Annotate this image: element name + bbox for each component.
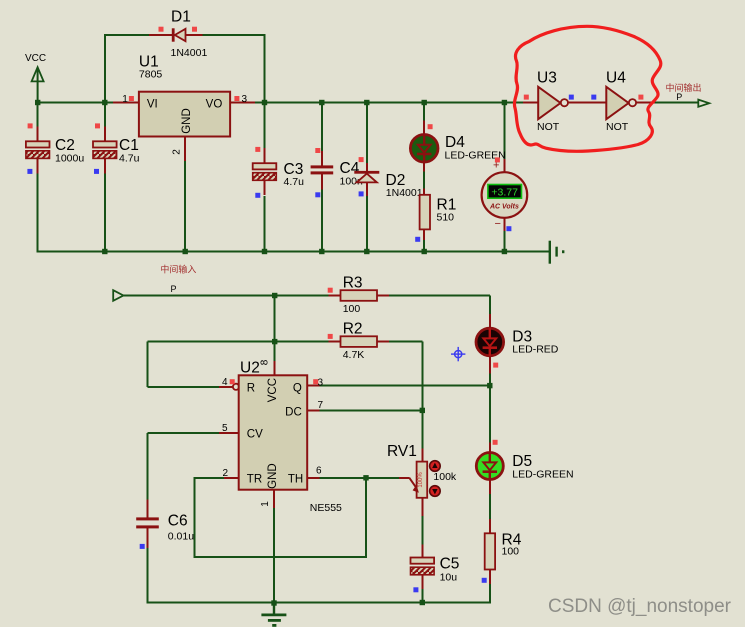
svg-text:7: 7 (318, 400, 324, 411)
svg-text:U2: U2 (240, 360, 260, 377)
wire C4 column bottom (321, 190, 323, 252)
svg-text:Q: Q (293, 383, 302, 395)
ground top right (550, 241, 563, 264)
marker R3 left (328, 288, 333, 293)
marker C6 bottom (140, 544, 145, 549)
capacitor C4 100n (311, 151, 363, 190)
wire U3 input pin (523, 102, 538, 104)
wire C3 column bottom (264, 196, 266, 252)
LED D3 LED-RED (476, 314, 559, 374)
wire D4 column top (423, 103, 425, 122)
LED D5 LED-GREEN (476, 443, 573, 495)
junction P vertical (272, 293, 277, 298)
svg-text:RV1: RV1 (387, 443, 417, 460)
wire U2 pin1 column (273, 508, 275, 603)
wire U1 pin2 column (184, 161, 186, 252)
marker D1 left (159, 27, 164, 32)
marker U4 output (638, 95, 643, 100)
wire P vertical to U2 VCC (274, 296, 276, 362)
marker U3 input (524, 95, 529, 100)
wire C2 column bottom (37, 173, 39, 253)
wire D1 branch top-left horizontal (104, 34, 150, 36)
marker U2 pin3 (313, 379, 318, 384)
svg-text:7805: 7805 (139, 69, 163, 81)
svg-text:6: 6 (316, 466, 322, 477)
marker R4 bottom (482, 578, 487, 583)
svg-text:VI: VI (147, 99, 158, 111)
red annotation loop around U3 U4 (514, 26, 660, 151)
marker U1 pin1 (129, 96, 134, 101)
svg-text:1N4001: 1N4001 (171, 47, 208, 59)
svg-text:1: 1 (122, 94, 128, 105)
marker R1 bottom (415, 237, 420, 242)
svg-text:D1: D1 (171, 9, 191, 26)
wire C1 column top (104, 103, 106, 127)
junction reset net / P vertical (272, 339, 277, 344)
svg-text:D5: D5 (512, 453, 532, 470)
svg-text:C5: C5 (440, 556, 460, 573)
wire U4 output to arrow (655, 102, 699, 104)
svg-text:U3: U3 (537, 70, 557, 87)
wire DC pin horizontal (319, 409, 422, 411)
wire top rail left segment (38, 102, 114, 104)
junction TH / TR loop (363, 475, 368, 480)
regulator U1 7805 (113, 54, 255, 162)
wire D3 to Q junction (489, 373, 491, 386)
wire reset net left vertical (146, 342, 148, 387)
junction VCC stem (35, 100, 40, 105)
wire P line (input to R3/D3) (123, 295, 489, 297)
wire TH horizontal (319, 477, 400, 479)
junction rail C4 (319, 249, 324, 254)
marker U3 output (569, 95, 574, 100)
wire U3 output to U4 input (568, 102, 606, 104)
ground bottom (261, 603, 286, 625)
svg-text:3: 3 (242, 94, 248, 105)
wire D3 feed vertical (489, 296, 491, 315)
svg-text:P: P (676, 92, 682, 102)
wire voltmeter column top (503, 103, 505, 160)
capacitor C1 4.7u (93, 126, 140, 173)
marker U4 input (591, 95, 596, 100)
wire C1 column bottom (104, 173, 106, 252)
svg-text:VCC: VCC (267, 378, 279, 402)
svg-text:NOT: NOT (537, 121, 560, 133)
node P output arrow (698, 100, 709, 107)
junction voltmeter top (502, 100, 507, 105)
svg-text:0.01u: 0.01u (168, 531, 194, 543)
svg-text:2: 2 (172, 149, 183, 155)
capacitor C6 0.01u (136, 500, 194, 549)
svg-text:GND: GND (181, 108, 193, 134)
marker C1 top (95, 123, 100, 128)
wire top rail main segment (265, 102, 525, 104)
svg-text:C1: C1 (119, 137, 139, 154)
svg-text:VO: VO (206, 99, 223, 111)
marker D2 bottom (359, 191, 364, 196)
wire C5 bottom (421, 589, 423, 603)
junction rail R1 (422, 249, 427, 254)
svg-text:GND: GND (267, 463, 279, 489)
marker C5 bottom (413, 587, 418, 592)
wire R pin horizontal (147, 386, 219, 388)
LED D4 LED-GREEN (410, 121, 505, 172)
svg-text:10u: 10u (440, 572, 458, 584)
inverter U4 NOT (606, 70, 636, 134)
marker C1 bottom (94, 169, 99, 174)
junction rail D2 (364, 249, 369, 254)
svg-text:100k: 100k (433, 471, 457, 483)
diode D1 1N4001 (149, 9, 207, 60)
origin crosshair (451, 347, 465, 361)
junction DC node (420, 408, 425, 413)
marker D5 top (493, 440, 498, 445)
marker C2 top (28, 123, 33, 128)
wire voltmeter column bottom (503, 231, 505, 252)
wire CV horizontal (147, 432, 219, 434)
svg-text:4.7u: 4.7u (119, 153, 140, 165)
svg-text:100: 100 (502, 546, 520, 558)
marker R2 left (328, 334, 333, 339)
svg-text:+3.77: +3.77 (491, 187, 518, 199)
svg-text:NE555: NE555 (310, 502, 342, 514)
svg-text:100: 100 (343, 303, 361, 315)
svg-text:4: 4 (222, 377, 228, 388)
marker C3 top (255, 147, 260, 152)
svg-text:R3: R3 (343, 275, 363, 292)
marker C2 bottom (27, 169, 32, 174)
svg-text:DC: DC (285, 407, 302, 419)
junction D2 top (364, 100, 369, 105)
wire bottom rail of top circuit (37, 251, 550, 253)
svg-text:NOT: NOT (606, 121, 629, 133)
svg-text:100%: 100% (418, 472, 424, 488)
capacitor C5 10u (411, 545, 460, 590)
junction C1 / pin1 (102, 100, 107, 105)
wire Q junction to D5 (489, 386, 491, 443)
svg-text:C4: C4 (340, 160, 360, 177)
svg-text:−: − (495, 218, 501, 230)
svg-text:4.7K: 4.7K (343, 349, 365, 361)
junction rail C5 (420, 600, 425, 605)
wire D4-R1 middle (423, 171, 425, 189)
wire C6 bottom vertical (146, 548, 148, 604)
marker D1 right (192, 27, 197, 32)
wire CV vertical to C6 (146, 433, 148, 500)
junction rail C1 (102, 249, 107, 254)
junction C4 top (319, 100, 324, 105)
diode D2 1N4001 (354, 163, 422, 199)
svg-text:5: 5 (222, 423, 228, 434)
svg-text:510: 510 (437, 212, 455, 224)
wire Q net horizontal (319, 385, 490, 387)
marker voltmeter top (495, 157, 500, 162)
timer U2 NE555 (219, 359, 342, 514)
junction rail ground (271, 600, 276, 605)
voltmeter AC Volts (482, 159, 528, 231)
marker C3 bottom (255, 193, 260, 198)
marker C4 bottom (315, 192, 320, 197)
wire R4 bottom (489, 584, 491, 604)
capacitor C3 4.7u (253, 148, 304, 195)
node VCC: power arrow top-left (25, 53, 46, 103)
svg-text:AC Volts: AC Volts (489, 204, 519, 211)
wire C2 column top (37, 103, 39, 127)
potentiometer RV1 100k (387, 443, 457, 516)
svg-text:1000u: 1000u (55, 153, 84, 165)
marker voltmeter bottom (506, 226, 511, 231)
resistor R1 510 (420, 189, 457, 241)
junction rail voltmeter (502, 249, 507, 254)
wire reset net horizontal (147, 341, 329, 343)
junction Q net / LED column (487, 383, 492, 388)
svg-text:VCC: VCC (25, 53, 46, 64)
junction D4 top (422, 100, 427, 105)
svg-text:1N4001: 1N4001 (386, 187, 423, 199)
svg-text:U4: U4 (606, 70, 626, 87)
wire mid vertical (R2/DC/RV1) (421, 342, 423, 449)
wire D5 to R4 (489, 494, 491, 520)
svg-text:LED-GREEN: LED-GREEN (512, 469, 573, 481)
capacitor C2 1000u (26, 126, 84, 173)
svg-text:C6: C6 (168, 513, 188, 530)
wire R1 bottom (423, 240, 425, 252)
svg-text:TR: TR (247, 474, 262, 486)
wire D1 branch top-right horizontal (202, 34, 266, 36)
svg-text:中间输入: 中间输入 (160, 264, 196, 275)
svg-text:C2: C2 (55, 137, 75, 154)
svg-text:P: P (171, 284, 177, 294)
junction rail pin2 (183, 249, 188, 254)
wire R2 right to mid vertical (389, 341, 422, 343)
marker D2 top (359, 157, 364, 162)
resistor R2 4.7K (329, 321, 390, 362)
wire VO to rail node (254, 102, 265, 104)
inverter U3 NOT (537, 70, 568, 134)
svg-text:3: 3 (318, 378, 324, 389)
wire TR loop (194, 478, 366, 557)
marker D3 bottom (493, 363, 498, 368)
wire D1 branch left vertical (104, 35, 106, 103)
svg-text:CSDN @tj_nonstoper: CSDN @tj_nonstoper (548, 596, 732, 617)
marker U2 pin4 (230, 379, 235, 384)
wire C4 column top (321, 103, 323, 152)
wire U4 output pin (637, 102, 656, 104)
wire RV1 to C5 (421, 516, 423, 546)
junction rail C3 (262, 249, 267, 254)
svg-text:LED-RED: LED-RED (512, 344, 559, 356)
svg-text:中间输出: 中间输出 (666, 82, 702, 93)
svg-text:1: 1 (260, 501, 271, 507)
resistor R4 100 (485, 519, 522, 584)
marker U1 pin3 (234, 96, 239, 101)
wire D2 column bottom (366, 196, 368, 252)
svg-text:R2: R2 (343, 321, 363, 338)
svg-text:2: 2 (222, 468, 228, 479)
marker C4 top (315, 148, 320, 153)
marker D4 top (428, 124, 433, 129)
svg-text:CV: CV (247, 429, 263, 441)
svg-text:8: 8 (260, 359, 271, 365)
wire bottom rail of lower circuit (147, 602, 490, 604)
node P input arrow (113, 290, 123, 301)
wire C3 column top (264, 103, 266, 149)
svg-text:4.7u: 4.7u (284, 176, 305, 188)
wire D1 branch right vertical (264, 34, 266, 103)
svg-text:TH: TH (288, 474, 303, 486)
wire D2 column top (366, 103, 368, 164)
junction VO node (262, 100, 267, 105)
resistor R3 100 (329, 275, 390, 316)
svg-text:D4: D4 (445, 134, 465, 151)
svg-text:R: R (247, 383, 255, 395)
